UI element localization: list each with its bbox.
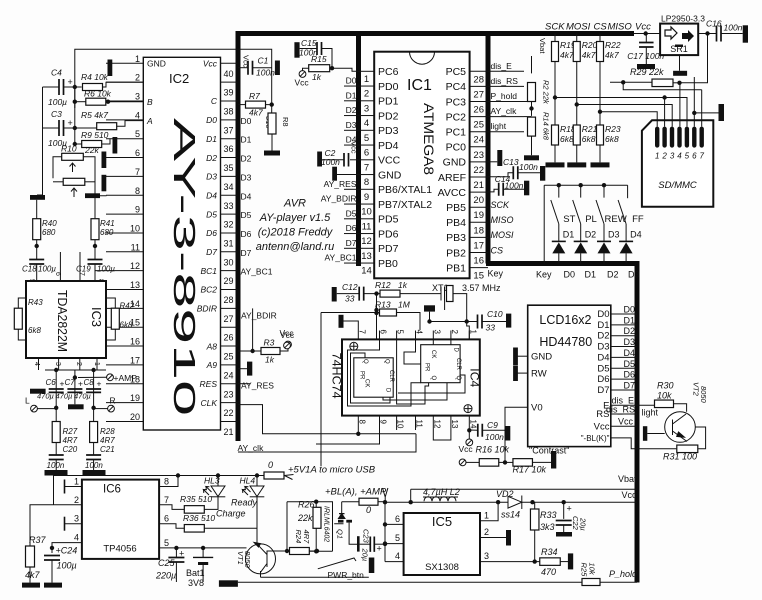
wire D7 stub at ATmega xyxy=(344,247,359,249)
connector bar at IC2 pin 6 xyxy=(102,152,107,169)
wire thick line to C1 xyxy=(238,67,248,69)
wire switch PL to diode xyxy=(580,224,582,242)
wire IC1 pin 3 cell xyxy=(359,100,375,102)
svg-text:AY_BC1: AY_BC1 xyxy=(325,253,357,263)
potentiometer R11 xyxy=(63,178,85,185)
node IC5 pin6 junction xyxy=(383,522,387,526)
svg-text:PB1: PB1 xyxy=(446,262,466,274)
capacitor C9 xyxy=(478,424,483,437)
node C8 top junction xyxy=(91,368,95,372)
node Vcc at R16 xyxy=(459,459,466,466)
flip-flop FF2 box xyxy=(421,345,460,383)
svg-text:dis_RS: dis_RS xyxy=(606,405,635,415)
svg-text:13: 13 xyxy=(450,420,459,429)
svg-text:C12: C12 xyxy=(342,282,358,292)
wire IC5 pin6 stub xyxy=(385,523,404,525)
wire diode D2 to bus xyxy=(580,253,582,263)
wire IC1 pin 12 cell xyxy=(359,233,375,235)
wire PWR wire xyxy=(261,576,369,578)
wire R20 top xyxy=(576,34,578,42)
svg-text:MISO: MISO xyxy=(608,22,633,33)
svg-text:Vcc: Vcc xyxy=(459,444,474,454)
wire R6 left lead xyxy=(75,101,86,103)
wire R40 top xyxy=(36,200,38,219)
wire IC2 pin 21 cell line xyxy=(221,420,238,422)
svg-text:32: 32 xyxy=(223,220,233,230)
svg-text:D0: D0 xyxy=(206,115,217,125)
wire AVR module frame top bus xyxy=(236,31,634,36)
wire LCD RW stub xyxy=(518,372,528,374)
wire R7 to R8 xyxy=(266,105,272,114)
svg-text:C8: C8 xyxy=(84,378,95,387)
ground bar at IC4 pin7 xyxy=(339,315,344,328)
svg-text:D3: D3 xyxy=(628,270,640,280)
svg-text:6k8: 6k8 xyxy=(28,326,41,335)
svg-text:AVCC: AVCC xyxy=(438,187,467,199)
svg-text:dis_RS: dis_RS xyxy=(491,76,519,86)
wire IC4 pin 11 bottom stub xyxy=(415,416,417,430)
svg-text:D1: D1 xyxy=(346,90,357,100)
svg-text:R43: R43 xyxy=(28,298,43,307)
svg-text:8: 8 xyxy=(135,186,140,196)
svg-text:100n: 100n xyxy=(85,461,103,470)
svg-text:4R7: 4R7 xyxy=(100,436,115,445)
ground bar under R23 xyxy=(591,162,610,167)
resistor R2 xyxy=(528,83,536,102)
svg-text:2: 2 xyxy=(74,495,79,505)
wire IC1 pin 25 cell xyxy=(470,116,488,118)
svg-text:PB0: PB0 xyxy=(378,258,398,270)
svg-text:D3: D3 xyxy=(241,172,252,182)
node R13 left junction 2 xyxy=(374,311,378,315)
resistor R30 xyxy=(655,400,674,408)
wire R37 bottom xyxy=(29,567,31,583)
svg-text:"-BL(K)": "-BL(K)" xyxy=(581,434,610,443)
resistor R36 xyxy=(184,525,204,533)
regulator SR1 input arrow xyxy=(665,27,677,39)
wire IC2 pin 26 cell line xyxy=(221,326,238,328)
capacitor C14 xyxy=(499,183,504,196)
wire R14 bottom xyxy=(531,136,533,155)
capacitor C23 xyxy=(370,537,374,552)
wire C7 column xyxy=(74,378,76,405)
svg-text:PD7: PD7 xyxy=(378,243,399,255)
svg-text:Vcc: Vcc xyxy=(594,421,610,432)
capacitor C21 xyxy=(86,455,101,460)
wire A9 stub xyxy=(238,368,247,370)
svg-text:22k: 22k xyxy=(297,513,313,523)
wire R23 bottom xyxy=(599,145,601,162)
node L output terminal xyxy=(31,405,38,412)
wire IC2 pin 5 stub xyxy=(106,138,143,140)
svg-text:LCD16x2: LCD16x2 xyxy=(539,313,591,327)
wire key rail xyxy=(544,184,627,186)
svg-text:light: light xyxy=(642,408,659,418)
svg-text:C21: C21 xyxy=(100,445,115,454)
svg-text:Key: Key xyxy=(488,269,504,279)
svg-text:10k: 10k xyxy=(588,563,597,576)
wire IC2 pin 37 cell line xyxy=(221,119,238,121)
resistor R13 xyxy=(380,309,397,316)
wire IC2 pin 35 cell line xyxy=(221,157,238,159)
svg-text:R34: R34 xyxy=(541,547,558,557)
svg-text:3: 3 xyxy=(432,330,441,335)
ground bar under C20 xyxy=(45,470,68,476)
svg-text:BC2: BC2 xyxy=(200,285,217,295)
ground bar under SR1 xyxy=(673,71,687,76)
wire IC4 pin 5 top stub xyxy=(396,331,398,340)
wire IC1 pin 9 cell xyxy=(359,188,375,190)
wire XT1 right xyxy=(453,294,467,322)
wire IC2 pin 11 stub xyxy=(106,251,143,253)
wire LCD D5 to border xyxy=(611,367,637,369)
svg-text:37: 37 xyxy=(223,125,233,135)
node R18 junction xyxy=(553,95,557,99)
resistor R3 xyxy=(261,348,280,355)
svg-text:38: 38 xyxy=(223,107,233,117)
svg-text:R25: R25 xyxy=(580,563,589,578)
wire R24 to R26 xyxy=(309,550,317,552)
svg-text:40: 40 xyxy=(223,69,233,79)
wire IC4 pin 12 bottom stub xyxy=(432,416,434,430)
connector bar at A9 row xyxy=(247,362,252,376)
wire IC4 internal 8 xyxy=(383,383,447,400)
svg-text:1: 1 xyxy=(364,74,369,85)
wire D5 stub at ATmega xyxy=(344,218,359,220)
svg-text:MOSI: MOSI xyxy=(566,22,591,33)
capacitor C18 xyxy=(29,260,44,265)
capacitor C3 xyxy=(59,120,64,136)
connector bar at IC2 pin 7 xyxy=(102,175,107,192)
svg-text:470: 470 xyxy=(541,567,556,577)
wire C4 left lead xyxy=(43,86,60,88)
wire IC4 pin8 to AY_clk xyxy=(357,430,359,434)
wire IC2 pin 14 stub xyxy=(106,307,143,309)
op-amp IC2 AY-3-8910 body xyxy=(143,57,220,430)
svg-text:Ready: Ready xyxy=(231,498,258,508)
svg-text:6: 6 xyxy=(379,330,388,335)
node SD pin6 junction xyxy=(692,111,696,115)
svg-text:33: 33 xyxy=(486,323,496,333)
wire AY_BDIR stub at ATmega xyxy=(344,203,359,205)
wire IC4 pin 2 top stub xyxy=(450,331,452,340)
svg-text:Vcc: Vcc xyxy=(350,141,359,154)
svg-text:4: 4 xyxy=(415,330,424,335)
svg-text:8050: 8050 xyxy=(243,551,252,569)
svg-text:74HC74: 74HC74 xyxy=(330,353,342,400)
resistor R42 xyxy=(111,308,119,329)
svg-text:R23: R23 xyxy=(605,124,621,134)
wire R13 to 5V vertical xyxy=(320,313,322,467)
node R24-R26 junction xyxy=(315,549,319,553)
wire IC2 pin 20 stub xyxy=(106,420,143,422)
svg-text:Q: Q xyxy=(384,359,390,364)
svg-text:10: 10 xyxy=(130,223,140,233)
node +5V at HL3 xyxy=(216,473,220,477)
connector bar at C23 xyxy=(357,536,360,551)
wire SR1 gnd pin xyxy=(679,55,681,71)
svg-text:D2: D2 xyxy=(585,230,597,240)
boost IC5 SX1308 body xyxy=(404,513,480,575)
wire Vbat to R2 xyxy=(531,56,533,73)
wire R7 left lead xyxy=(238,104,246,106)
svg-text:3: 3 xyxy=(670,152,675,161)
wire switch PL stub xyxy=(580,185,582,197)
svg-text:FF: FF xyxy=(632,214,644,225)
node +5V at pin8 xyxy=(176,473,180,477)
wire IC4 pin 9 bottom stub xyxy=(379,416,381,430)
svg-text:7: 7 xyxy=(699,152,704,161)
wire IC4 internal 1 xyxy=(348,339,421,406)
svg-text:C13: C13 xyxy=(503,157,519,167)
wire IC1 pin 5 cell xyxy=(359,129,375,131)
svg-text:HL3: HL3 xyxy=(204,476,220,486)
connector bar right of C10 xyxy=(506,314,511,328)
svg-text:R41: R41 xyxy=(100,219,115,228)
wire IC1 pin 18 cell xyxy=(470,221,488,223)
svg-text:AY-3-8910: AY-3-8910 xyxy=(167,118,202,416)
node Vcc at R3 xyxy=(285,341,292,348)
node key rail junction PL xyxy=(579,183,583,187)
wire R11 wiper arrow xyxy=(71,188,77,197)
svg-text:PD0: PD0 xyxy=(378,81,399,93)
wire LCD D4 to border xyxy=(611,356,637,358)
connector bar above IC4 pin3 xyxy=(424,305,435,311)
svg-text:Vcc: Vcc xyxy=(242,55,251,68)
ground bar right of SD xyxy=(719,104,725,121)
diode VD2 xyxy=(508,496,522,510)
node C23 at IC5 pin5 xyxy=(383,542,387,546)
wire switch REW stub xyxy=(603,185,605,197)
wire IC2 pin 22 cell line xyxy=(221,402,238,404)
wire C14 to bar xyxy=(503,188,524,190)
wire Vcc rail xyxy=(385,501,637,503)
svg-text:1k: 1k xyxy=(265,355,275,365)
wire R21 bottom xyxy=(576,145,578,162)
svg-text:R8: R8 xyxy=(281,117,290,127)
wire SD pin7 up xyxy=(701,90,703,127)
svg-text:2: 2 xyxy=(135,73,140,83)
svg-text:100µ: 100µ xyxy=(97,265,115,274)
svg-text:CS: CS xyxy=(594,22,608,33)
wire IC4 internal 9 xyxy=(398,375,465,393)
connector SD/MMC body xyxy=(642,120,713,206)
svg-text:18: 18 xyxy=(473,225,484,236)
svg-text:1: 1 xyxy=(74,477,79,487)
node R13 left junction 1 xyxy=(374,308,378,312)
resistor R18 xyxy=(552,125,559,145)
wire IC1 pin 1 cell xyxy=(359,70,375,72)
wire IC1 pin 2 cell xyxy=(359,85,375,87)
svg-text:R22: R22 xyxy=(605,40,621,50)
svg-text:2: 2 xyxy=(661,152,667,161)
wire C25 top xyxy=(175,548,177,558)
resistor R27 xyxy=(52,422,60,443)
svg-text:1: 1 xyxy=(655,152,659,161)
svg-text:3: 3 xyxy=(364,103,369,114)
wire IC1 pin 21 cell xyxy=(470,176,488,178)
wire R19 top xyxy=(554,34,556,42)
node R9 left junction xyxy=(73,142,77,146)
svg-text:LP2950-3.3: LP2950-3.3 xyxy=(661,14,705,24)
wire C4 C3 left vertical xyxy=(42,87,44,195)
svg-text:33: 33 xyxy=(223,201,233,211)
wire R40 bottom xyxy=(36,240,38,260)
wire IC2 pin 15 stub xyxy=(106,326,143,328)
svg-text:33: 33 xyxy=(345,294,355,304)
svg-text:AY_BDIR: AY_BDIR xyxy=(321,194,357,204)
svg-text:TDA2822M: TDA2822M xyxy=(55,290,69,352)
ground bar at ATmega pin8 xyxy=(332,167,337,181)
wire pin8 to bar xyxy=(100,194,106,197)
connector bar at C15 xyxy=(294,42,299,58)
resistor R12 xyxy=(380,290,400,297)
wire IC4 pin14 to C9 xyxy=(469,429,478,431)
svg-text:D1: D1 xyxy=(206,134,217,144)
wire IC4 internal 2 xyxy=(351,353,391,403)
wire LCD D6 to border xyxy=(611,378,637,380)
wire R12 to XT1 xyxy=(400,293,441,295)
svg-text:Vcc: Vcc xyxy=(635,22,651,33)
wire ATmega pin8 to gnd xyxy=(337,174,359,176)
svg-text:C3: C3 xyxy=(51,109,62,119)
svg-text:6: 6 xyxy=(692,152,697,161)
ground bar under Bat1 xyxy=(219,580,238,587)
wire IC2 pin 23 cell line xyxy=(221,383,238,385)
wire C3 right lead xyxy=(64,127,97,129)
wire IC2 pin 6 stub xyxy=(106,157,143,159)
wire R29 to Vcc out xyxy=(680,34,708,83)
resistor R14 xyxy=(528,117,536,136)
svg-text:R42: R42 xyxy=(120,302,135,311)
svg-text:PC0: PC0 xyxy=(446,142,467,154)
connector bar pin8 row xyxy=(85,193,100,198)
node Vcc under IC4 xyxy=(466,439,473,446)
wire IC5 pin4 stub xyxy=(385,561,404,563)
svg-text:D6: D6 xyxy=(241,229,252,239)
svg-text:PC3: PC3 xyxy=(446,96,467,108)
wire C9 right lead xyxy=(482,429,505,431)
svg-text:4: 4 xyxy=(74,533,79,543)
svg-text:25: 25 xyxy=(473,120,484,131)
svg-text:2: 2 xyxy=(364,89,369,100)
svg-text:R40: R40 xyxy=(42,219,57,228)
wire R21 to SD pin3 xyxy=(577,105,672,127)
node R29 left junction xyxy=(621,80,625,84)
svg-text:39: 39 xyxy=(223,88,233,98)
svg-text:1k: 1k xyxy=(312,72,322,82)
wire C23 left lead xyxy=(360,543,371,545)
svg-text:GND: GND xyxy=(443,157,467,169)
svg-text:ST: ST xyxy=(563,214,575,225)
node C25 junction xyxy=(174,546,178,550)
wire HL3 top xyxy=(217,476,219,487)
wire R18 to SD pin5 xyxy=(555,98,687,127)
svg-text:IRLML6402: IRLML6402 xyxy=(323,506,330,542)
svg-text:10: 10 xyxy=(396,420,405,429)
transistor VT2 xyxy=(665,412,696,443)
wire R12 node vertical xyxy=(376,294,378,339)
connector bar C14 right xyxy=(524,181,529,196)
wire LCD D0 to border xyxy=(611,313,637,315)
wire SD pin4 up xyxy=(679,82,681,126)
wire bus to SR1 xyxy=(634,33,660,35)
svg-text:TP4056: TP4056 xyxy=(103,544,136,555)
svg-text:8: 8 xyxy=(357,420,366,425)
svg-text:D2: D2 xyxy=(346,105,357,115)
svg-text:C17 100n: C17 100n xyxy=(627,51,664,61)
svg-text:R12: R12 xyxy=(375,280,391,290)
wire dis_E stub xyxy=(488,70,524,72)
node R26 top junction xyxy=(314,500,318,504)
svg-text:D5: D5 xyxy=(346,208,357,218)
svg-text:R10: R10 xyxy=(61,144,77,154)
ground bar under R21 xyxy=(567,162,586,167)
svg-text:24: 24 xyxy=(223,370,233,380)
svg-text:R26: R26 xyxy=(298,500,315,510)
switch REW blade xyxy=(596,200,604,224)
node pin3 junction xyxy=(106,100,110,104)
wire C4 right lead xyxy=(64,86,82,88)
svg-text:C: C xyxy=(211,96,218,106)
node VD2 anode junction xyxy=(496,500,500,504)
ground bar under C7 xyxy=(68,404,84,409)
wire R36 to HL4 column xyxy=(204,527,257,529)
svg-text:C23: C23 xyxy=(362,529,371,544)
resistor R8 xyxy=(268,113,276,134)
svg-text:6k8: 6k8 xyxy=(560,134,574,144)
wire +5V rail xyxy=(54,475,265,477)
wire IC4 pin9 run xyxy=(316,430,380,444)
svg-text:Q: Q xyxy=(362,359,368,364)
node R33-R34 junction xyxy=(533,559,537,563)
ground bar left of C6 xyxy=(30,389,46,394)
svg-text:14: 14 xyxy=(361,266,372,277)
wire TDA output row xyxy=(45,369,106,371)
wire IC1 pin 6 cell xyxy=(359,144,375,146)
svg-text:SD/MMC: SD/MMC xyxy=(658,180,697,191)
wire C10 right lead xyxy=(482,321,506,323)
node C22 junction xyxy=(562,500,566,504)
node IC4 pin14 junction xyxy=(467,428,471,432)
svg-text:PD4: PD4 xyxy=(378,140,399,152)
wire AY_RES stub at ATmega xyxy=(344,188,359,190)
wire C22 top xyxy=(563,502,565,519)
wire R13 right lead xyxy=(397,313,421,331)
node VT1 base junction xyxy=(285,549,289,553)
wire IC2 pin 39 cell line xyxy=(221,81,238,83)
node osc junction 2 xyxy=(465,319,469,323)
wire IC2 pin 18 stub xyxy=(106,383,143,385)
svg-text:19: 19 xyxy=(473,210,484,221)
wire IC2 pin 40 cell line xyxy=(221,62,238,64)
svg-text:C25: C25 xyxy=(158,558,176,568)
node R16-R17 junction xyxy=(503,460,507,464)
svg-text:R36 510: R36 510 xyxy=(183,513,215,523)
svg-text:100µ: 100µ xyxy=(57,561,77,571)
node R23 junction xyxy=(598,110,602,114)
svg-text:3.57 MHz: 3.57 MHz xyxy=(462,283,501,293)
wire IC6 pin1 stub xyxy=(65,486,82,488)
svg-text:PB3: PB3 xyxy=(446,232,466,244)
svg-text:C18: C18 xyxy=(22,265,37,274)
wire IC2 pin 2 stub xyxy=(106,81,143,83)
potentiometer R10 xyxy=(62,153,84,160)
wire IC1 pin 26 cell xyxy=(470,101,488,103)
node C3-R5 junction xyxy=(73,126,77,130)
capacitor C15 xyxy=(317,42,322,55)
wire IC2 pin 3 stub xyxy=(106,100,143,102)
